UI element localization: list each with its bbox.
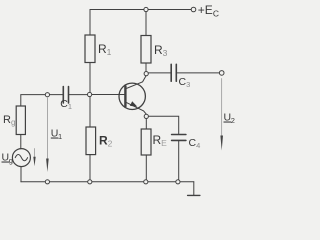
wire C4 bottom xyxy=(178,141,180,182)
wire R2 bottom xyxy=(89,155,91,182)
node junction top rail xyxy=(144,7,148,11)
svg-text:1: 1 xyxy=(58,132,62,141)
capacitor C3 xyxy=(171,64,176,81)
node rail C4 xyxy=(176,180,180,184)
node base xyxy=(88,92,92,96)
arrow source Ug xyxy=(33,149,35,167)
terminal output xyxy=(219,71,224,76)
terminal +Ec xyxy=(191,7,196,12)
wire top rail xyxy=(90,9,191,11)
wire source bottom xyxy=(20,167,22,182)
node collector xyxy=(144,72,148,76)
wire collector node to C3 xyxy=(148,72,170,74)
wire base node to R2 xyxy=(89,97,91,127)
resistor R3 xyxy=(141,36,151,64)
wire Rg to source xyxy=(20,135,22,149)
wire R1 bottom xyxy=(89,63,91,93)
transistor Q1 xyxy=(119,76,146,115)
terminal input bottom xyxy=(45,180,49,184)
wire base xyxy=(92,94,125,96)
wire R3 bottom xyxy=(145,63,147,71)
wire emitter node to C4 xyxy=(149,116,179,134)
capacitor C4 xyxy=(172,135,186,141)
wire input top xyxy=(21,95,45,106)
node rail R2 xyxy=(88,180,92,184)
ground xyxy=(188,182,200,196)
arrow U2 xyxy=(220,79,223,151)
resistor R2 xyxy=(86,127,96,155)
wire RE bottom xyxy=(145,155,147,182)
wire R1 top drop xyxy=(89,10,91,36)
wire input to C1 xyxy=(50,94,63,96)
svg-text:g: g xyxy=(9,156,13,165)
terminal input top xyxy=(45,93,49,97)
wire R3 top drop xyxy=(145,10,147,36)
wire bottom rail xyxy=(21,181,194,183)
wire C1 to base node xyxy=(69,94,87,96)
capacitor C1 xyxy=(63,87,68,104)
svg-text:2: 2 xyxy=(231,116,235,125)
node rail RE xyxy=(144,180,148,184)
node emitter xyxy=(144,114,148,118)
arrow U1 xyxy=(46,98,49,172)
wire C3 to output terminal xyxy=(177,72,220,74)
wire emitter node to RE xyxy=(145,119,147,129)
resistor RE xyxy=(141,129,151,155)
source Ug xyxy=(12,149,30,167)
resistor Rg xyxy=(16,106,25,135)
resistor R1 xyxy=(85,35,95,63)
